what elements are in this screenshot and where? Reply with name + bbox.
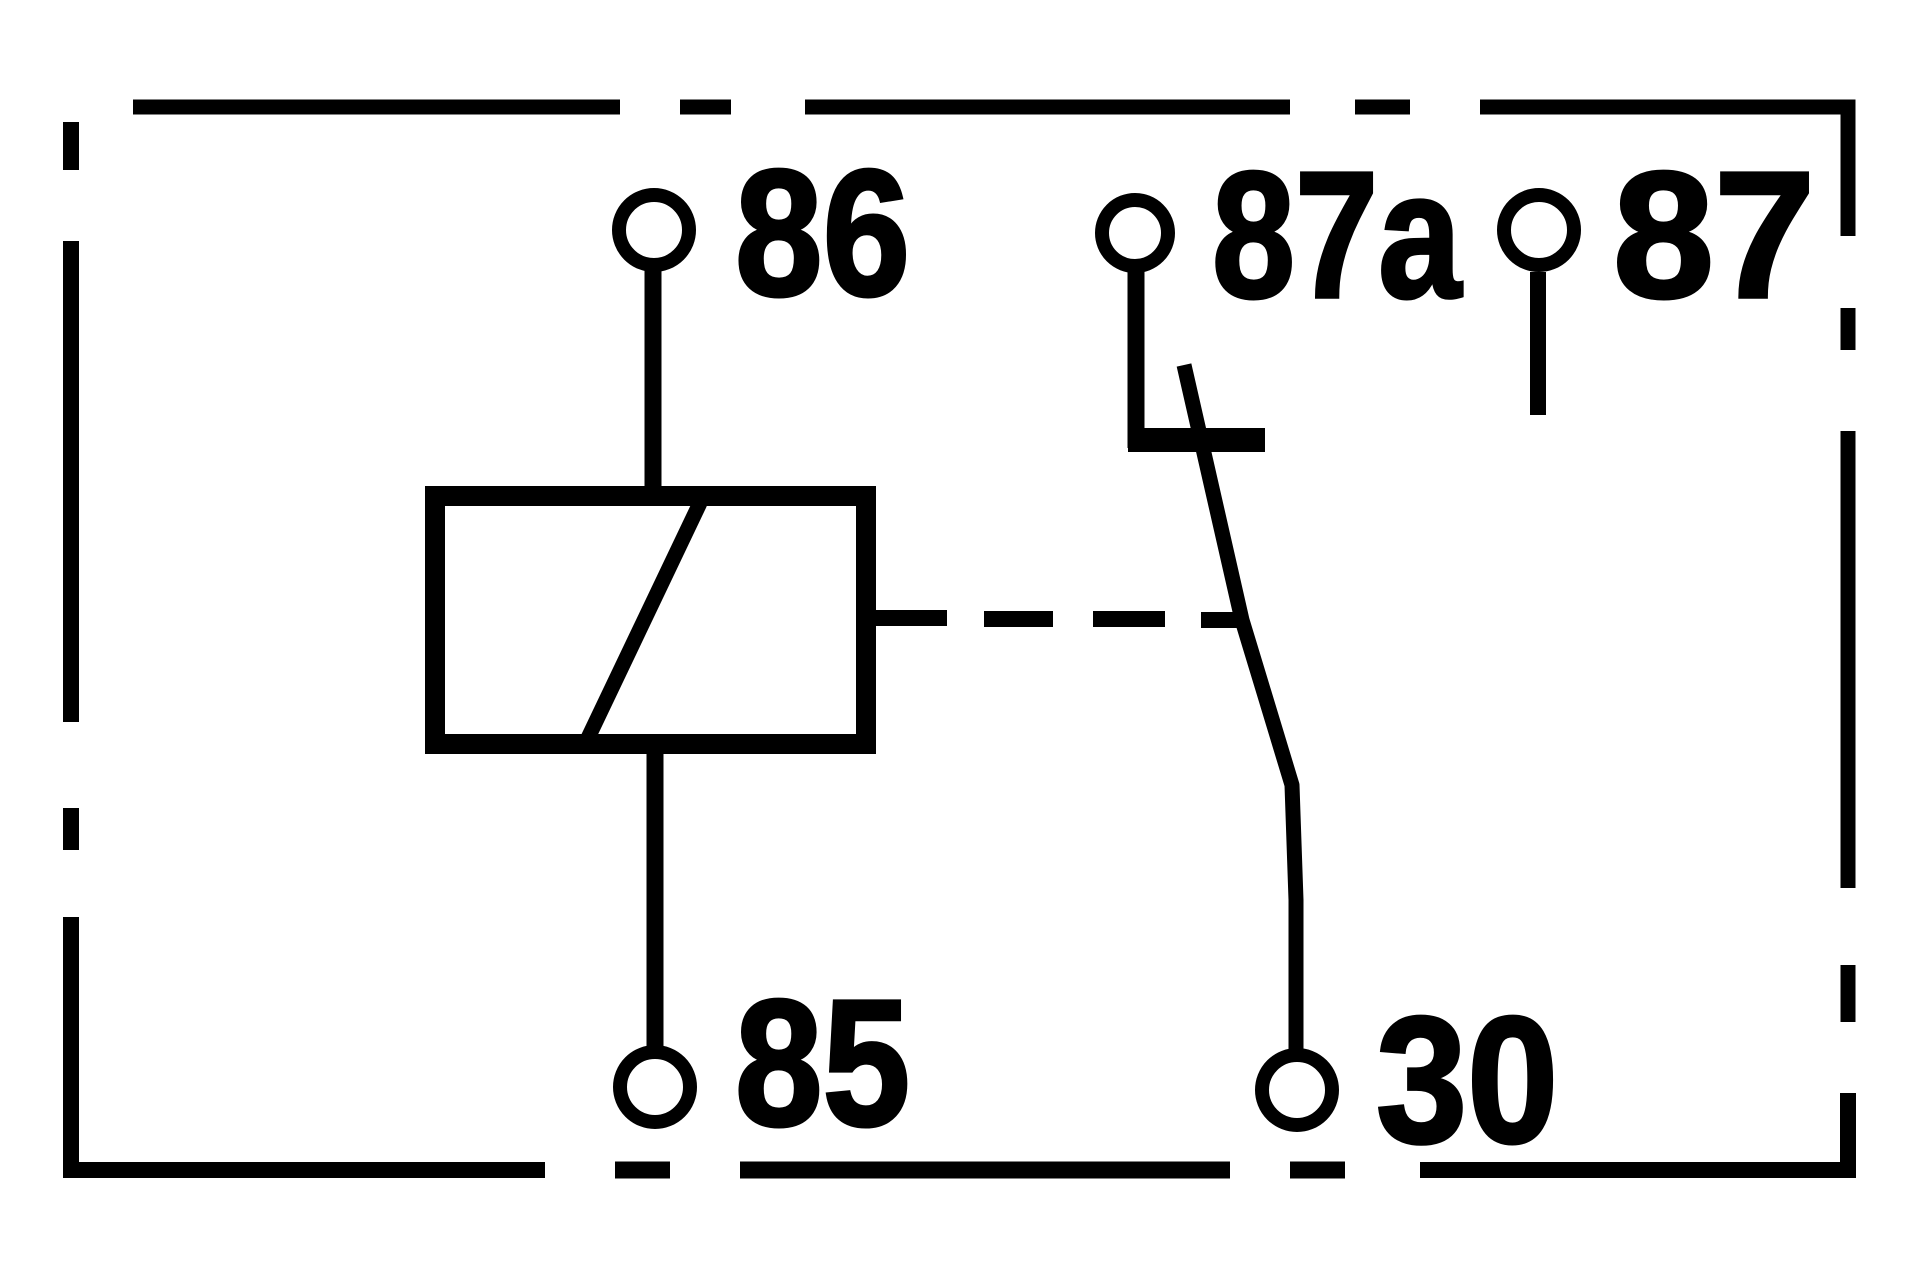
svg-text:30: 30 <box>1376 980 1558 1181</box>
svg-text:87a: 87a <box>1212 135 1463 336</box>
svg-text:86: 86 <box>735 132 910 333</box>
svg-text:85: 85 <box>735 962 910 1163</box>
svg-text:87: 87 <box>1613 135 1815 336</box>
